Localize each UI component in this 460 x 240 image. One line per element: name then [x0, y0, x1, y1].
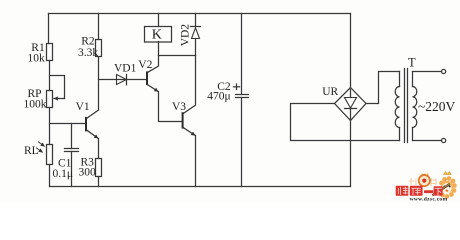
svg-text:100k: 100k — [24, 98, 47, 110]
svg-text:K: K — [152, 28, 162, 43]
svg-text:V3: V3 — [172, 101, 186, 113]
svg-text:R2: R2 — [81, 35, 95, 47]
svg-text:10k: 10k — [28, 53, 46, 65]
svg-text:V1: V1 — [76, 101, 90, 113]
svg-text:www.dzsc.com: www.dzsc.com — [410, 197, 448, 202]
svg-text:VD1: VD1 — [114, 62, 137, 74]
svg-text:470μ: 470μ — [207, 91, 230, 103]
svg-text:VD2: VD2 — [180, 24, 192, 47]
svg-text:0.1μ: 0.1μ — [53, 168, 74, 180]
svg-text:3.3k: 3.3k — [78, 47, 98, 59]
svg-text:RL: RL — [24, 145, 39, 157]
svg-text:~220V: ~220V — [418, 99, 456, 114]
svg-text:UR: UR — [322, 86, 338, 98]
svg-text:300: 300 — [79, 166, 97, 178]
svg-text:T: T — [408, 55, 416, 69]
svg-text:V2: V2 — [138, 59, 152, 71]
